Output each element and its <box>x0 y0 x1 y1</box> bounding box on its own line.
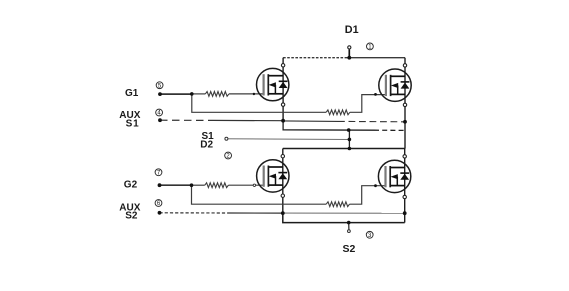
svg-text:S1: S1 <box>126 118 140 129</box>
svg-text:G1: G1 <box>125 88 139 99</box>
svg-text:S2: S2 <box>125 210 138 221</box>
svg-text:G2: G2 <box>124 180 138 191</box>
svg-text:D1: D1 <box>345 24 359 36</box>
svg-text:D2: D2 <box>200 139 213 150</box>
svg-text:S2: S2 <box>343 243 356 255</box>
